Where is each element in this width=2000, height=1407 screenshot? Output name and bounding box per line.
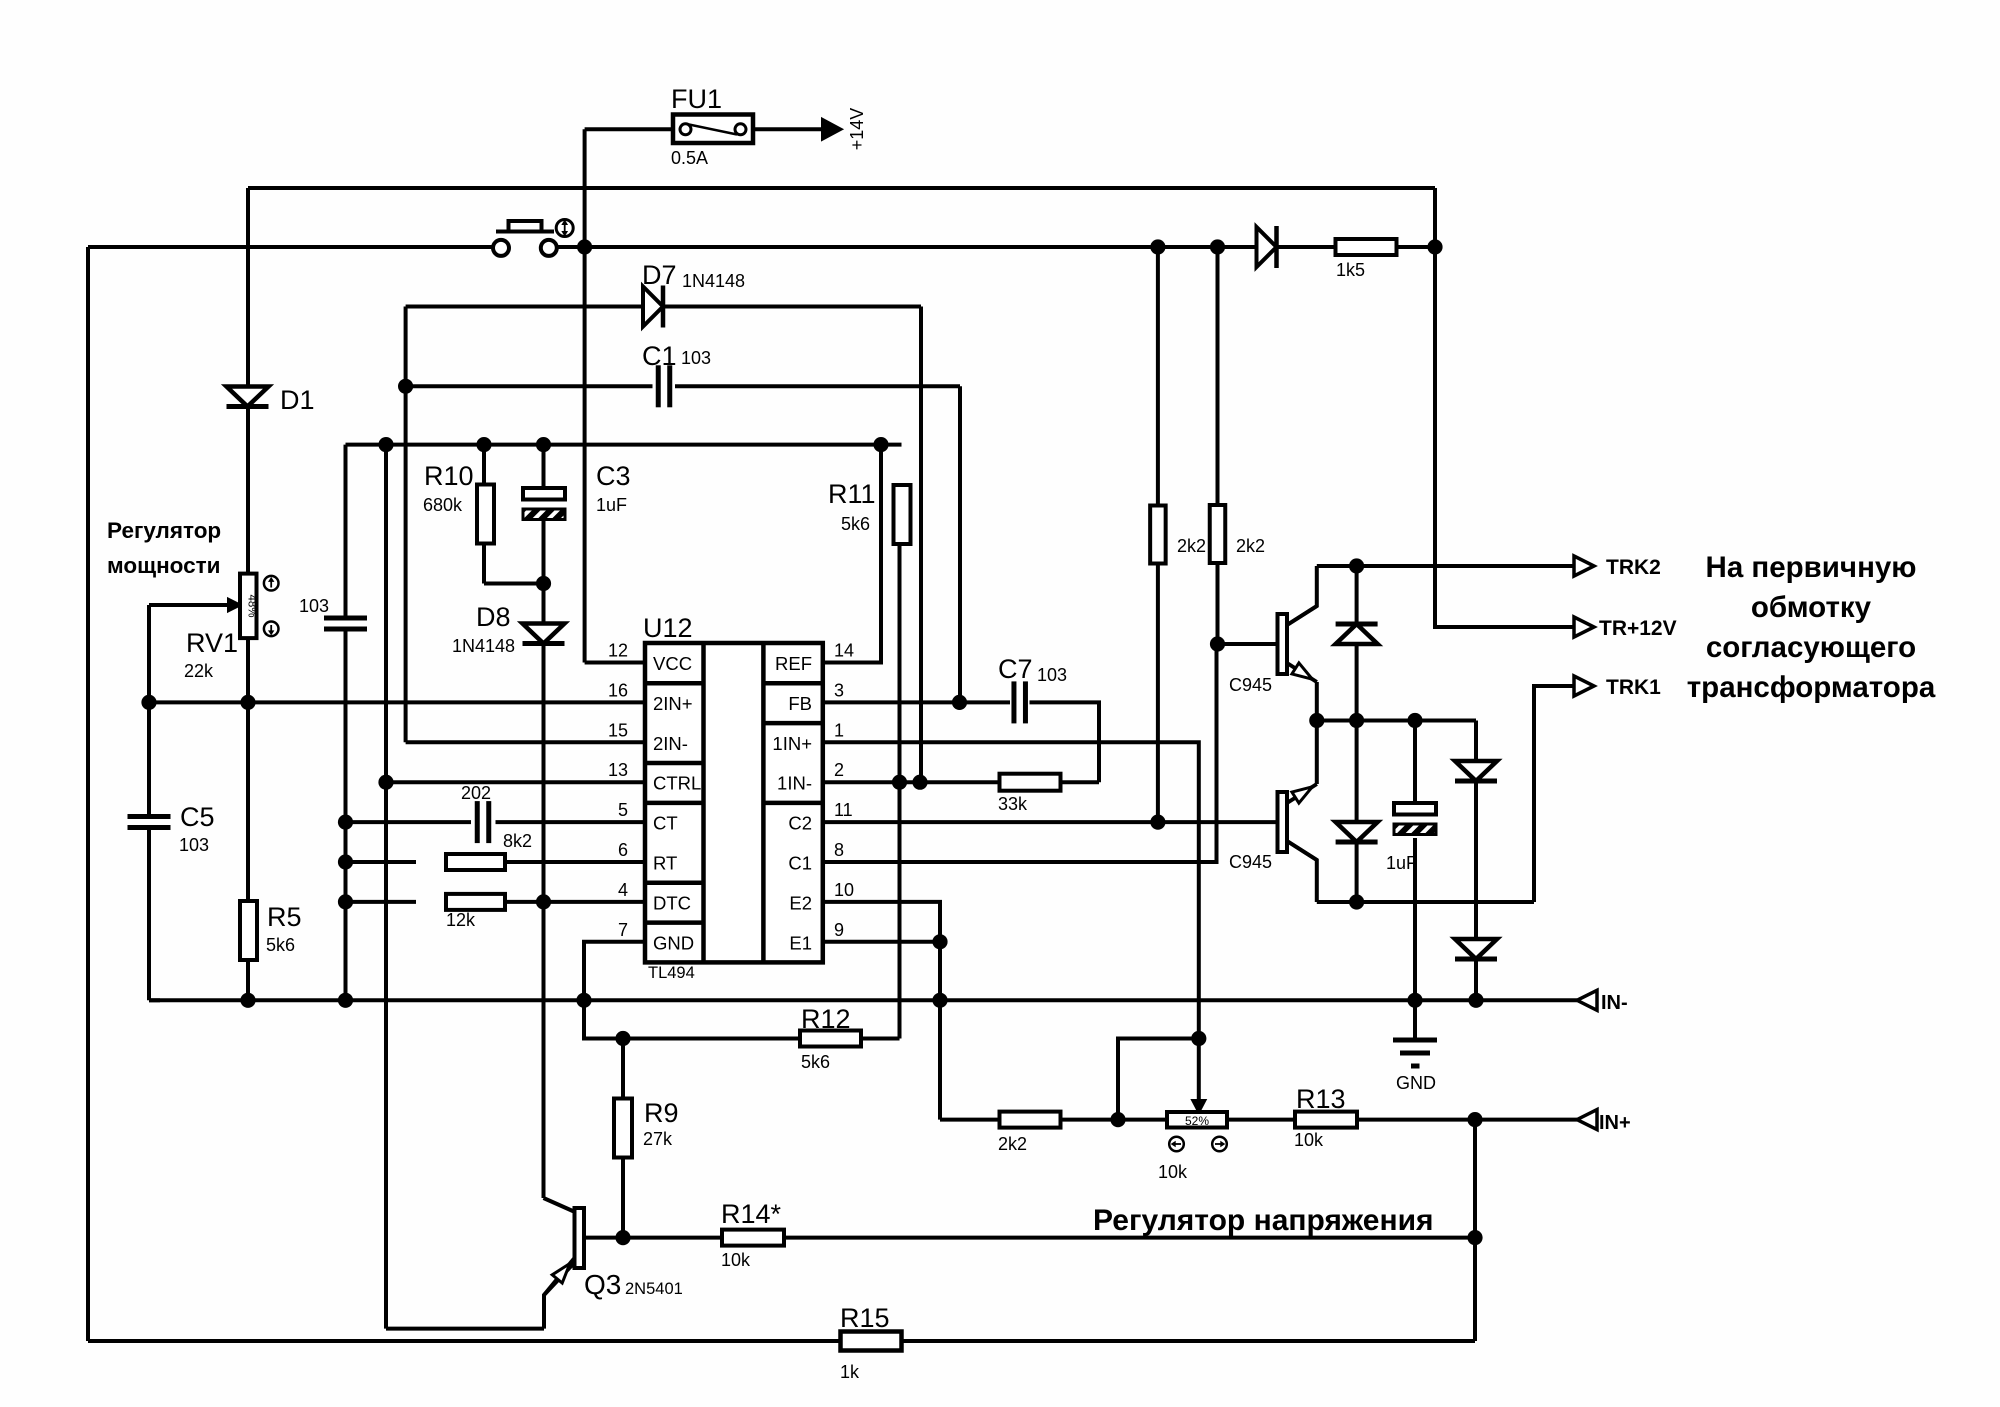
svg-text:1k: 1k xyxy=(840,1362,860,1382)
svg-text:обмотку: обмотку xyxy=(1751,591,1872,624)
wire top rail y=188 xyxy=(248,186,1435,190)
svg-text:2k2: 2k2 xyxy=(1177,536,1206,556)
svg-text:R14*: R14* xyxy=(721,1199,782,1229)
svg-text:5k6: 5k6 xyxy=(266,935,295,955)
svg-text:2k2: 2k2 xyxy=(1236,536,1265,556)
wire CTRL vertical x=386 xyxy=(384,445,388,1329)
arrow IN+ xyxy=(1577,1110,1597,1130)
svg-text:11: 11 xyxy=(834,800,853,820)
wire IN- rail y=1000.3 xyxy=(149,998,1577,1002)
svg-text:1N4148: 1N4148 xyxy=(452,636,515,656)
wire RV1 bottom to R5 to IN- rail x=248 xyxy=(246,638,250,902)
diode lower of column (pointing down) xyxy=(1336,822,1378,842)
svg-text:Регулятор напряжения: Регулятор напряжения xyxy=(1093,1204,1434,1237)
svg-text:C7: C7 xyxy=(998,654,1033,684)
wire fuse feed y=129 xyxy=(585,127,673,131)
svg-text:103: 103 xyxy=(681,348,711,368)
wire right vertical x=1475 (IN+ to bottom rail) xyxy=(1473,1120,1477,1341)
svg-text:FU1: FU1 xyxy=(671,84,722,114)
wire right diode column x=1476 xyxy=(1474,721,1478,763)
svg-text:C3: C3 xyxy=(596,461,631,491)
resistor R14* 10k xyxy=(722,1230,784,1246)
transistor Q3 2N5401 xyxy=(575,1208,585,1268)
svg-text:1uF: 1uF xyxy=(1386,853,1417,873)
wire 1IN+ pin1 to pot wiper xyxy=(823,742,1199,1104)
wire D7 top y=306.5 xyxy=(406,305,643,309)
svg-text:D8: D8 xyxy=(476,602,511,632)
capacitor C7 103 xyxy=(1011,681,1016,723)
arrow TRK1 xyxy=(1574,676,1594,696)
IC U12 TL494 xyxy=(645,643,823,962)
svg-text:E1: E1 xyxy=(789,932,812,953)
transistor Q2 C945 xyxy=(1278,792,1288,852)
svg-text:C5: C5 xyxy=(180,802,215,832)
capacitor 103 at x=345.5 xyxy=(324,616,367,621)
svg-text:1IN-: 1IN- xyxy=(777,773,812,794)
svg-text:U12: U12 xyxy=(643,613,693,643)
svg-text:Регулятор: Регулятор xyxy=(107,518,221,543)
resistor R13 10k xyxy=(1295,1112,1357,1128)
capacitor 202 and labels xyxy=(475,801,480,843)
wire 2k2 left vertical x=1157.9 xyxy=(1156,247,1160,506)
svg-text:33k: 33k xyxy=(998,794,1028,814)
svg-text:C1: C1 xyxy=(642,341,677,371)
svg-text:TR+12V: TR+12V xyxy=(1599,617,1677,640)
wire R9 branch xyxy=(621,1039,625,1099)
svg-text:TRK1: TRK1 xyxy=(1606,676,1661,699)
arrow IN- xyxy=(1577,990,1597,1010)
diode top of column (pointing up) xyxy=(1336,624,1378,644)
wire Q1 emitter vertical xyxy=(1315,682,1319,721)
wire wiper branch to pot-left node xyxy=(1118,1039,1199,1120)
svg-text:6: 6 xyxy=(618,840,628,860)
svg-text:C2: C2 xyxy=(788,813,812,834)
svg-text:2k2: 2k2 xyxy=(998,1134,1027,1154)
svg-text:R12: R12 xyxy=(801,1004,851,1034)
resistor R11 5k6 xyxy=(894,485,911,544)
svg-text:103: 103 xyxy=(1037,665,1067,685)
svg-text:TRK2: TRK2 xyxy=(1606,556,1661,579)
wire CT pin5 y=822.1 xyxy=(346,820,472,824)
svg-text:IN-: IN- xyxy=(1601,992,1628,1014)
resistor 2k2 left xyxy=(1150,506,1166,564)
svg-text:12k: 12k xyxy=(446,910,476,930)
fuse FU1 xyxy=(673,115,753,144)
wire Q3 emitter bottom y=1328.6 xyxy=(386,1327,544,1331)
svg-text:TL494: TL494 xyxy=(648,964,695,982)
svg-text:14: 14 xyxy=(834,641,854,661)
wire C1 y=386.3 xyxy=(406,384,653,388)
svg-text:52%: 52% xyxy=(1185,1114,1209,1128)
wire Q2 collector xyxy=(1287,841,1317,902)
wire diode column x=1356.6 xyxy=(1355,566,1359,624)
wire RT pin6 y=862 xyxy=(346,860,417,864)
wire 2IN- vertical x=405.6 xyxy=(404,307,408,743)
svg-text:103: 103 xyxy=(299,596,329,616)
resistor R10 680k xyxy=(477,485,494,544)
diode right column upper xyxy=(1455,761,1497,781)
wire Q1 collector xyxy=(1287,566,1317,625)
wire RV1 wiper xyxy=(149,603,228,607)
svg-text:GND: GND xyxy=(653,932,694,953)
svg-text:FB: FB xyxy=(788,693,812,714)
wire 1uF column x=1415 xyxy=(1413,721,1417,804)
svg-text:GND: GND xyxy=(1396,1073,1436,1093)
svg-text:103: 103 xyxy=(179,835,209,855)
svg-text:5k6: 5k6 xyxy=(841,514,870,534)
svg-text:R15: R15 xyxy=(840,1303,890,1333)
svg-text:2: 2 xyxy=(834,760,844,780)
wire R11/pin2/R12 vertical x=899.5 xyxy=(898,544,902,1039)
wire TRK1 riser x=1534 xyxy=(1534,686,1574,902)
wire fuse vertical x=584.6 down to pin 12 xyxy=(583,129,587,662)
resistor R9 27k xyxy=(614,1099,632,1158)
wire FB pin3 y=702.4 xyxy=(823,700,1010,704)
resistor 2k2 right xyxy=(1210,505,1226,563)
svg-text:1: 1 xyxy=(834,720,844,740)
svg-text:8: 8 xyxy=(834,840,844,860)
wire emitter rail y=720.5 xyxy=(1317,719,1476,723)
resistor R5 5k6 xyxy=(240,901,257,960)
svg-text:C945: C945 xyxy=(1229,852,1272,872)
wire 1IN- pin2 y=782.2 with 33k xyxy=(823,780,1000,784)
junction dots xyxy=(577,239,592,254)
resistor R15 1k xyxy=(841,1332,902,1351)
capacitor 1uF electrolytic xyxy=(1394,803,1436,815)
wire REF pin14 xyxy=(823,445,881,663)
wire Q3 collector diagonal xyxy=(544,1198,576,1212)
wire E1/E2 vertical x=940 to IN- and pot wire xyxy=(938,942,942,1120)
potentiometer RV1 22k xyxy=(240,574,257,639)
svg-text:IN+: IN+ xyxy=(1599,1112,1631,1134)
svg-text:C945: C945 xyxy=(1229,675,1272,695)
wire bottom rail y=1341 xyxy=(88,1339,842,1343)
wire D7 cathode vertical x=921 to 1IN- xyxy=(919,307,923,783)
svg-text:27k: 27k xyxy=(643,1129,673,1149)
svg-text:мощности: мощности xyxy=(107,553,220,578)
svg-text:1N4148: 1N4148 xyxy=(682,271,745,291)
wire E1 pin9 xyxy=(823,940,940,944)
wire button rail right segment y=247 xyxy=(557,245,1258,249)
diode D7 1N4148 xyxy=(643,287,663,327)
svg-text:RT: RT xyxy=(653,853,677,874)
svg-text:48%: 48% xyxy=(246,594,258,617)
pushbutton SB1 xyxy=(493,240,509,256)
diode at 1k5 row xyxy=(1257,227,1277,267)
resistor 8k2 xyxy=(446,854,505,870)
capacitor C1 103 xyxy=(656,365,661,407)
svg-text:1IN+: 1IN+ xyxy=(772,733,812,754)
arrow TRK2 xyxy=(1574,556,1594,576)
svg-text:13: 13 xyxy=(608,760,628,780)
resistor 2k2 bottom xyxy=(1000,1112,1061,1128)
svg-text:R10: R10 xyxy=(424,461,474,491)
resistor 33k xyxy=(1000,774,1061,791)
svg-text:5k6: 5k6 xyxy=(801,1052,830,1072)
wire C2 pin11 y=822.1 xyxy=(823,820,1278,824)
wire C7 right to 33k node xyxy=(1030,702,1100,782)
arrow TR+12V xyxy=(1574,617,1594,637)
svg-text:1uF: 1uF xyxy=(596,495,627,515)
capacitor C3 1uF electrolytic xyxy=(523,488,565,500)
svg-text:2IN+: 2IN+ xyxy=(653,693,693,714)
wire 2k2 right vertical x=1217.5 xyxy=(1216,247,1220,505)
svg-text:0.5A: 0.5A xyxy=(671,148,708,168)
arrow +14V xyxy=(822,119,842,141)
svg-text:CT: CT xyxy=(653,813,678,834)
wire CTRL pin13 y=782.2 xyxy=(386,780,645,784)
svg-text:RV1: RV1 xyxy=(186,628,238,658)
transistor Q1 C945 xyxy=(1278,614,1288,674)
wire C1 right vertical x=960 to FB xyxy=(958,386,962,702)
wire VCC rail left vertical x=345.5 with 103 cap xyxy=(344,445,348,618)
wire Q3 emitter xyxy=(544,1262,575,1329)
wire left vertical x=88 xyxy=(86,247,90,1341)
wire GND pin7 net xyxy=(584,942,800,1039)
wire wiper vertical x=149 down to 2IN+ and C5 xyxy=(147,605,151,816)
svg-text:R11: R11 xyxy=(828,479,876,509)
svg-text:10k: 10k xyxy=(721,1250,751,1270)
svg-text:202: 202 xyxy=(461,783,491,803)
svg-text:15: 15 xyxy=(608,720,628,740)
wire 2IN+ pin16 y=702.4 xyxy=(149,700,645,704)
svg-text:10: 10 xyxy=(834,880,854,900)
resistor 1k5 xyxy=(1336,239,1397,255)
wire GND stub xyxy=(1413,1000,1417,1038)
diode right column lower xyxy=(1455,939,1497,959)
wire C1 pin8 to Q1 base node xyxy=(823,644,1217,862)
svg-text:R9: R9 xyxy=(644,1098,679,1128)
svg-text:8k2: 8k2 xyxy=(503,831,532,851)
wire button rail left segment y=247 xyxy=(88,245,493,249)
svg-text:9: 9 xyxy=(834,920,844,940)
svg-text:7: 7 xyxy=(618,920,628,940)
wire TR+12V riser x=1435 xyxy=(1435,188,1574,627)
svg-text:На первичную: На первичную xyxy=(1706,551,1917,584)
svg-text:680k: 680k xyxy=(423,495,463,515)
svg-text:R5: R5 xyxy=(267,902,302,932)
svg-text:CTRL: CTRL xyxy=(653,773,701,794)
potentiometer 10k 52% xyxy=(1167,1112,1227,1128)
wire TRK1 y=902 xyxy=(1317,900,1534,904)
svg-text:E2: E2 xyxy=(789,892,812,913)
svg-text:D1: D1 xyxy=(280,385,315,415)
svg-text:5: 5 xyxy=(618,800,628,820)
wire VCC rail y=444.6 xyxy=(346,443,902,447)
svg-text:2IN-: 2IN- xyxy=(653,733,688,754)
ground symbol GND xyxy=(1393,1038,1437,1043)
svg-text:согласующего: согласующего xyxy=(1706,631,1916,664)
svg-text:DTC: DTC xyxy=(653,892,691,913)
wire E2 pin10 xyxy=(823,902,940,942)
wire D1 branch vertical x=248 xyxy=(246,188,250,387)
svg-text:Q3: Q3 xyxy=(584,1269,621,1300)
wire TRK2 y=566 xyxy=(1317,564,1574,568)
wire Q1 base y=644 xyxy=(1218,642,1278,646)
wire Q3 base y=1237.6 xyxy=(584,1236,722,1240)
svg-text:16: 16 xyxy=(608,680,628,700)
svg-text:1k5: 1k5 xyxy=(1336,260,1365,280)
svg-text:10k: 10k xyxy=(1294,1130,1324,1150)
wire 1k5 to right vertical xyxy=(1277,245,1336,249)
svg-text:2N5401: 2N5401 xyxy=(625,1280,683,1298)
wire DTC pin4 y=901.9 xyxy=(346,900,417,904)
svg-text:трансформатора: трансформатора xyxy=(1687,671,1936,704)
wire pot row y=1119.6 xyxy=(1061,1118,1168,1122)
svg-text:3: 3 xyxy=(834,680,844,700)
wire R10 leads xyxy=(482,445,486,484)
svg-text:22k: 22k xyxy=(184,661,214,681)
svg-text:REF: REF xyxy=(775,653,812,674)
resistor 12k xyxy=(446,894,505,910)
svg-text:4: 4 xyxy=(618,880,628,900)
svg-text:VCC: VCC xyxy=(653,653,692,674)
svg-text:D7: D7 xyxy=(642,260,677,290)
wire Q2 emitter vertical xyxy=(1315,721,1319,785)
wire C3/D8 vertical x=543.5 xyxy=(542,445,546,489)
wire R14 to IN+ riser xyxy=(784,1236,1475,1240)
capacitor C5 103 xyxy=(128,814,171,819)
resistor R12 5k6 xyxy=(800,1031,861,1047)
svg-text:10k: 10k xyxy=(1158,1162,1188,1182)
diode D8 1N4148 xyxy=(523,624,565,644)
svg-text:+14V: +14V xyxy=(847,108,867,151)
svg-text:R13: R13 xyxy=(1296,1084,1346,1114)
svg-text:12: 12 xyxy=(608,641,628,661)
svg-text:C1: C1 xyxy=(788,853,812,874)
diode D1 xyxy=(227,387,269,407)
